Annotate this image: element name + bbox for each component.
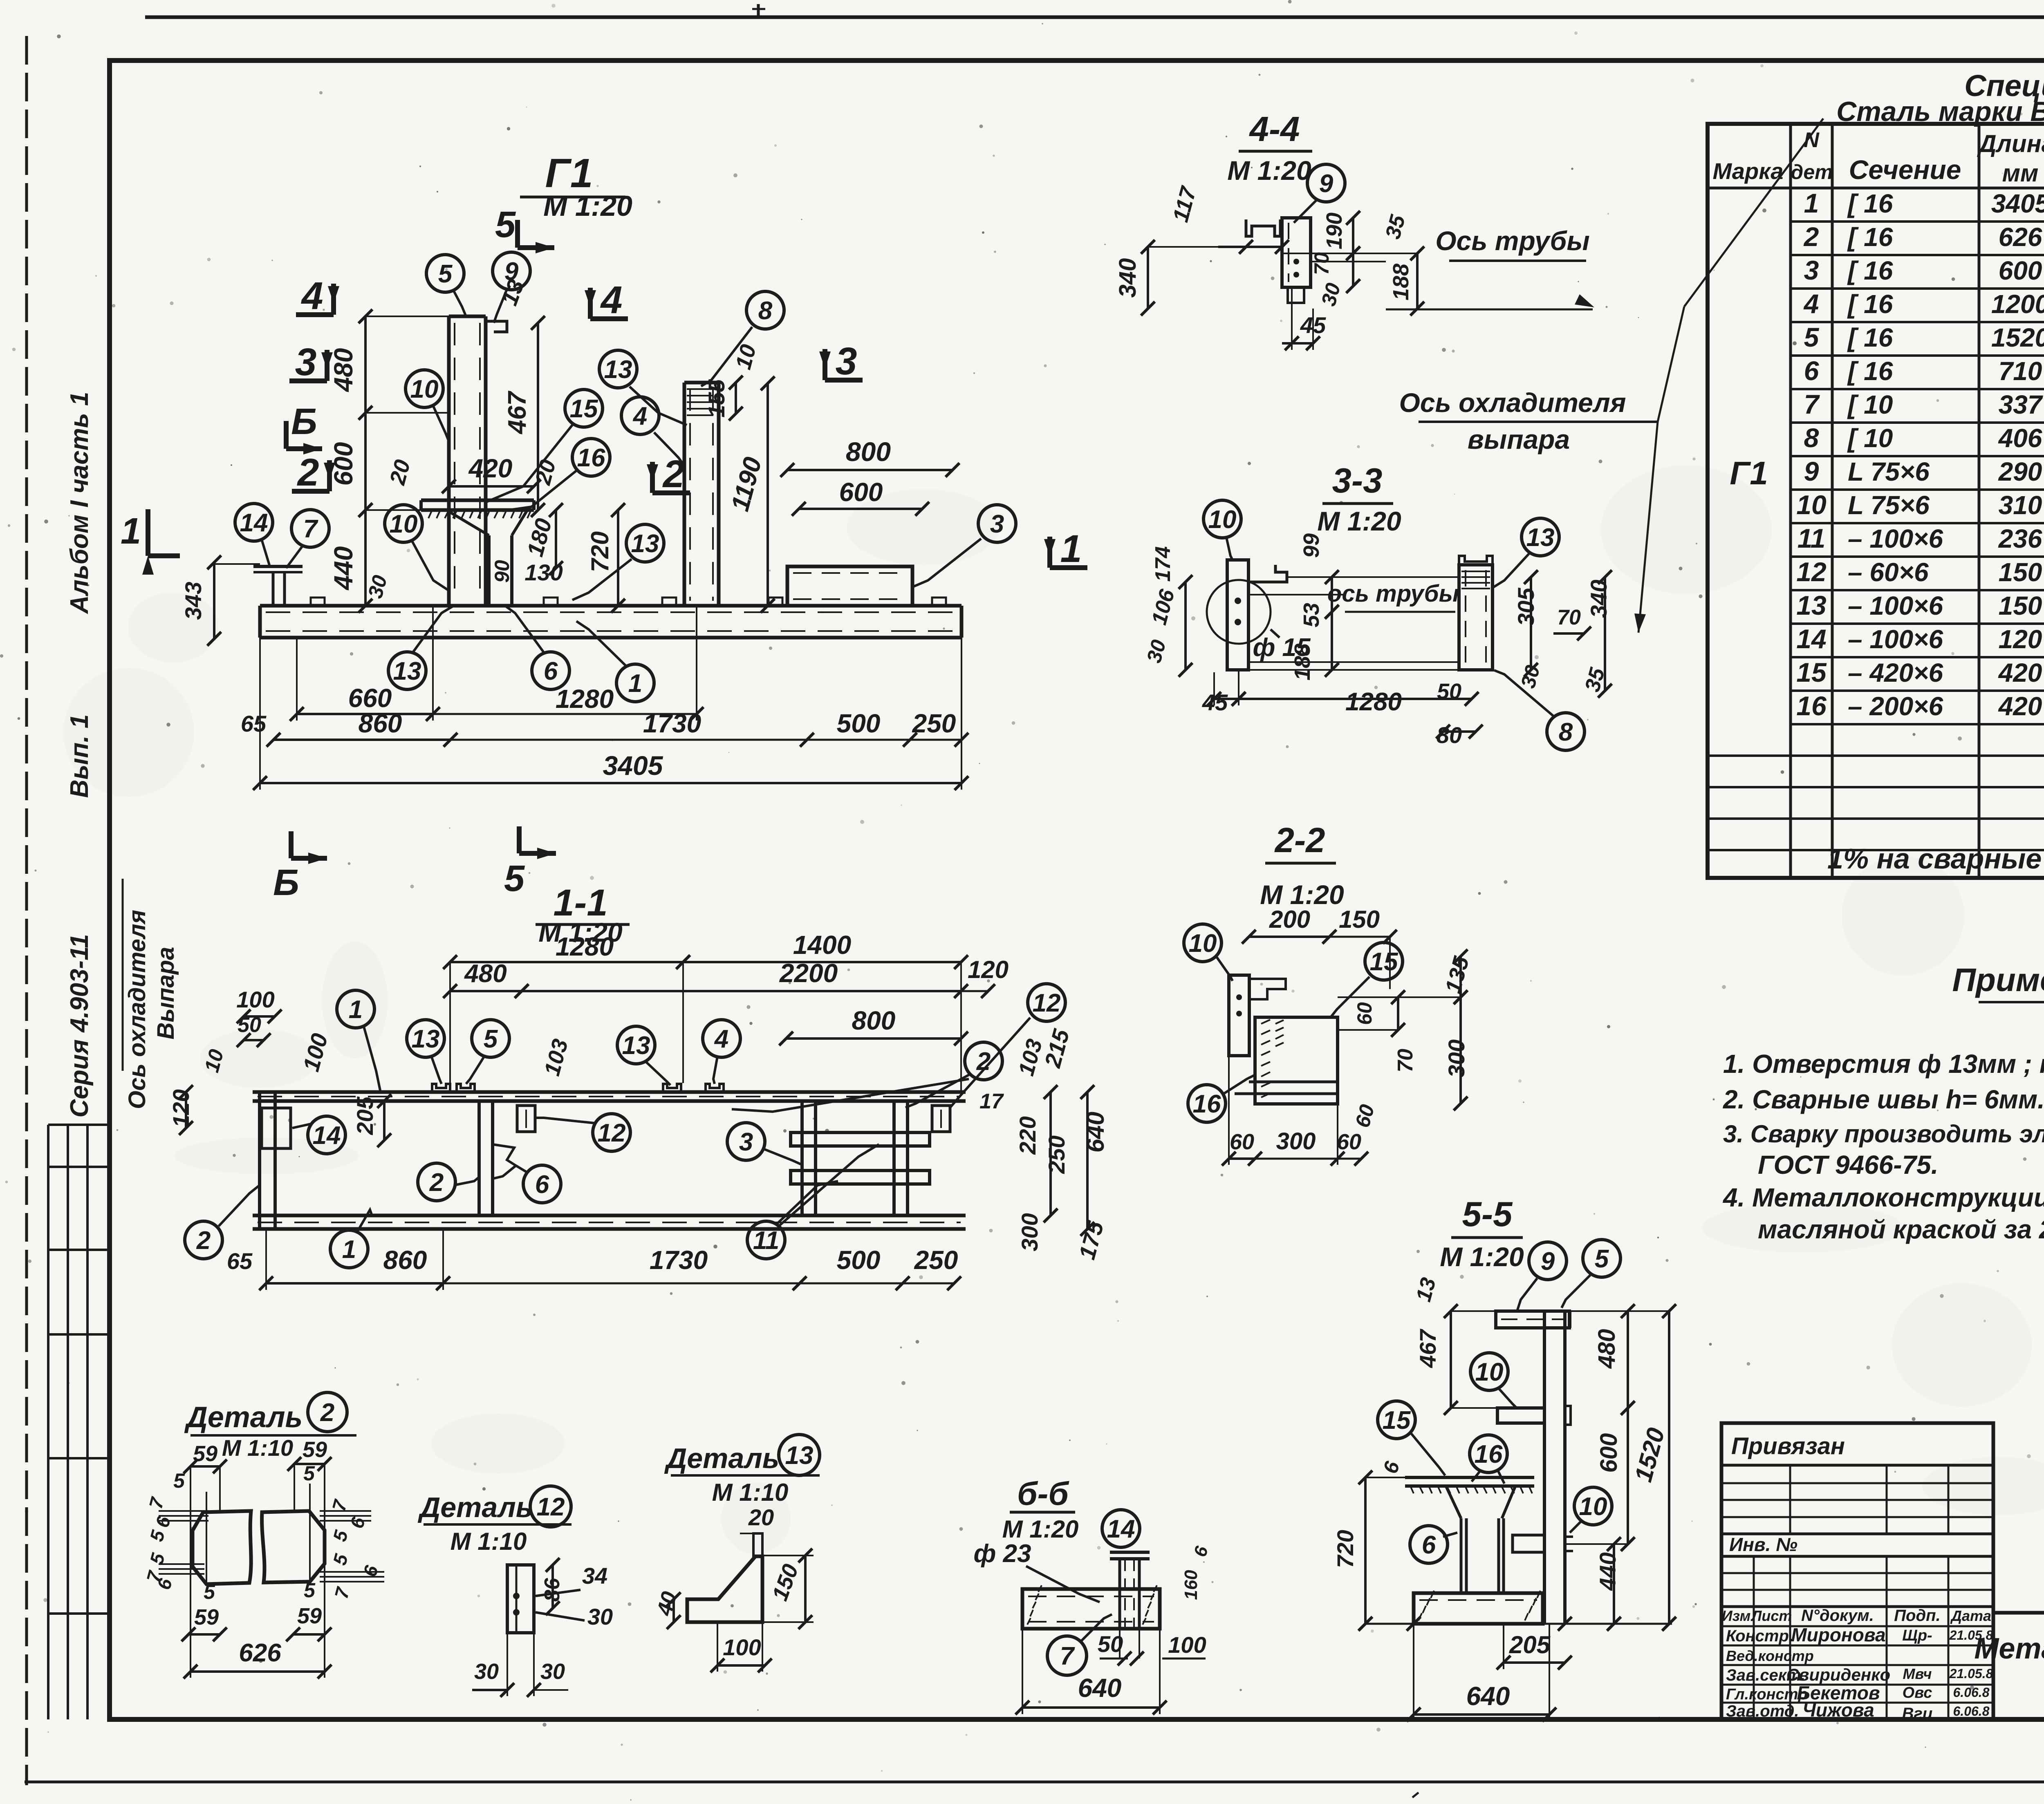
- svg-text:14: 14: [1796, 624, 1826, 654]
- svg-text:7: 7: [303, 515, 318, 543]
- svg-text:12: 12: [1033, 989, 1061, 1017]
- svg-text:9: 9: [1541, 1247, 1555, 1276]
- svg-text:Вып. 1: Вып. 1: [65, 714, 94, 798]
- svg-text:5: 5: [304, 1579, 316, 1602]
- svg-text:М 1:20: М 1:20: [1440, 1242, 1524, 1272]
- svg-text:[ 16: [ 16: [1847, 222, 1893, 252]
- svg-text:М 1:10: М 1:10: [712, 1479, 789, 1506]
- svg-text:59: 59: [194, 1605, 219, 1629]
- svg-text:2-2: 2-2: [1274, 821, 1325, 860]
- svg-text:Альбом I часть 1: Альбом I часть 1: [65, 392, 94, 615]
- svg-text:7: 7: [1804, 389, 1820, 419]
- svg-text:150: 150: [1339, 906, 1380, 933]
- svg-text:15: 15: [1796, 657, 1827, 687]
- svg-text:13: 13: [1526, 524, 1555, 552]
- svg-text:[ 16: [ 16: [1847, 289, 1893, 319]
- svg-text:9: 9: [504, 257, 519, 286]
- svg-text:60: 60: [1353, 1002, 1376, 1025]
- svg-text:7: 7: [1060, 1642, 1075, 1670]
- svg-text:205: 205: [1509, 1631, 1551, 1659]
- svg-text:6: 6: [1804, 356, 1820, 386]
- svg-text:Деталь: Деталь: [184, 1401, 303, 1434]
- svg-text:5: 5: [303, 1462, 315, 1485]
- svg-text:масляной краской за 2 раза.: масляной краской за 2 раза.: [1758, 1215, 2044, 1244]
- svg-text:Констр.: Констр.: [1726, 1627, 1793, 1645]
- svg-text:300: 300: [1276, 1128, 1316, 1155]
- svg-text:5-5: 5-5: [1462, 1195, 1513, 1234]
- svg-text:8: 8: [1804, 423, 1819, 453]
- svg-text:10: 10: [1796, 490, 1827, 520]
- svg-text:дет: дет: [1791, 161, 1833, 184]
- svg-text:3: 3: [295, 340, 317, 384]
- svg-text:155: 155: [704, 379, 729, 417]
- svg-text:130: 130: [524, 560, 563, 585]
- svg-text:1: 1: [121, 511, 141, 552]
- svg-text:L 75×6: L 75×6: [1848, 490, 1930, 520]
- svg-text:20: 20: [748, 1504, 774, 1530]
- svg-text:Изм: Изм: [1722, 1607, 1750, 1624]
- svg-text:50: 50: [1437, 679, 1461, 704]
- svg-text:5: 5: [204, 1580, 215, 1603]
- svg-text:1. Отверстия ф 13мм ; кроме о: 1. Отверстия ф 13мм ; кроме оговоренных.: [1723, 1049, 2044, 1079]
- svg-text:4: 4: [301, 274, 323, 318]
- svg-text:5: 5: [495, 204, 516, 245]
- svg-text:2200: 2200: [779, 958, 838, 988]
- svg-text:21.05.8: 21.05.8: [1949, 1666, 1993, 1681]
- svg-text:Привязан: Привязан: [1731, 1433, 1845, 1459]
- svg-text:800: 800: [852, 1006, 896, 1035]
- svg-text:13: 13: [1796, 590, 1826, 620]
- svg-text:4: 4: [714, 1025, 728, 1053]
- svg-text:3-3: 3-3: [1332, 461, 1383, 500]
- svg-text:70: 70: [1557, 606, 1581, 629]
- svg-text:467: 467: [1415, 1328, 1441, 1368]
- svg-text:13: 13: [622, 1032, 650, 1060]
- svg-text:1730: 1730: [650, 1245, 708, 1275]
- svg-text:10: 10: [1208, 506, 1237, 534]
- svg-text:М 1:20: М 1:20: [1002, 1515, 1079, 1543]
- svg-text:3: 3: [1804, 255, 1819, 285]
- svg-text:60: 60: [1230, 1130, 1254, 1154]
- svg-text:710: 710: [1999, 356, 2042, 386]
- svg-text:800: 800: [846, 436, 891, 467]
- svg-text:13: 13: [631, 530, 659, 558]
- svg-text:9: 9: [1319, 170, 1334, 198]
- svg-text:99: 99: [1299, 533, 1324, 558]
- svg-text:120: 120: [168, 1089, 194, 1127]
- svg-text:600: 600: [839, 477, 883, 507]
- svg-text:2. Сварные швы h= 6мм.: 2. Сварные швы h= 6мм.: [1723, 1085, 2044, 1114]
- svg-text:720: 720: [586, 531, 614, 572]
- svg-text:1% на сварные швы: 1% на сварные швы: [1827, 843, 2044, 875]
- svg-text:14: 14: [1107, 1515, 1135, 1543]
- svg-text:11: 11: [1797, 523, 1826, 553]
- svg-text:30: 30: [474, 1659, 499, 1684]
- svg-text:90: 90: [491, 560, 513, 583]
- svg-text:440: 440: [1595, 1552, 1620, 1591]
- svg-text:Ось охладителя: Ось охладителя: [124, 910, 150, 1109]
- svg-text:М 1:20: М 1:20: [1227, 155, 1311, 186]
- svg-text:188: 188: [1290, 644, 1315, 680]
- svg-text:5: 5: [484, 1025, 498, 1053]
- svg-text:11: 11: [753, 1227, 779, 1255]
- svg-text:[ 16: [ 16: [1847, 189, 1893, 218]
- svg-text:10: 10: [1189, 929, 1217, 958]
- svg-text:600: 600: [1596, 1433, 1622, 1473]
- svg-text:1: 1: [1060, 527, 1082, 571]
- svg-text:1280: 1280: [556, 932, 614, 961]
- svg-text:1520: 1520: [1991, 323, 2044, 352]
- svg-text:Подп.: Подп.: [1894, 1607, 1940, 1625]
- svg-text:2: 2: [429, 1168, 444, 1197]
- svg-text:190: 190: [1322, 213, 1347, 249]
- svg-text:15: 15: [570, 395, 598, 423]
- svg-text:640: 640: [1078, 1673, 1122, 1703]
- svg-text:1: 1: [342, 1235, 356, 1264]
- svg-text:300: 300: [1017, 1213, 1042, 1251]
- svg-text:8: 8: [1559, 718, 1573, 746]
- svg-text:Длина,: Длина,: [1977, 130, 2044, 157]
- svg-text:L 75×6: L 75×6: [1848, 457, 1930, 486]
- svg-text:343: 343: [180, 582, 206, 620]
- svg-text:N°докум.: N°докум.: [1801, 1607, 1874, 1625]
- svg-text:Б: Б: [273, 862, 299, 903]
- svg-text:М 1:10: М 1:10: [222, 1435, 293, 1461]
- svg-text:Зав.отд.: Зав.отд.: [1726, 1702, 1799, 1720]
- svg-text:[ 16: [ 16: [1847, 356, 1893, 386]
- svg-text:Гл.констр: Гл.констр: [1726, 1686, 1808, 1703]
- svg-text:34: 34: [582, 1563, 607, 1589]
- svg-text:[ 16: [ 16: [1847, 323, 1893, 352]
- svg-text:10: 10: [410, 375, 439, 403]
- svg-text:860: 860: [359, 709, 402, 738]
- svg-text:3: 3: [836, 340, 857, 383]
- svg-text:13: 13: [785, 1441, 814, 1470]
- svg-text:500: 500: [837, 709, 881, 738]
- svg-text:53: 53: [1299, 603, 1324, 627]
- svg-text:Миронова: Миронова: [1791, 1624, 1885, 1645]
- svg-text:Щр-: Щр-: [1902, 1627, 1932, 1644]
- svg-text:640: 640: [1466, 1681, 1510, 1711]
- svg-text:10: 10: [1475, 1358, 1504, 1386]
- svg-text:120: 120: [968, 956, 1009, 983]
- svg-text:3: 3: [739, 1128, 753, 1156]
- svg-text:440: 440: [329, 546, 358, 591]
- svg-text:70: 70: [1310, 252, 1333, 275]
- svg-text:– 200×6: – 200×6: [1848, 692, 1943, 721]
- svg-text:М 1:10: М 1:10: [450, 1528, 527, 1555]
- svg-text:1730: 1730: [643, 709, 701, 738]
- svg-text:300: 300: [1443, 1039, 1469, 1077]
- svg-text:Мвч: Мвч: [1903, 1665, 1932, 1682]
- svg-text:150: 150: [1999, 557, 2042, 587]
- svg-text:Деталь: Деталь: [664, 1442, 780, 1474]
- svg-text:2: 2: [320, 1399, 334, 1427]
- svg-text:59: 59: [297, 1604, 322, 1628]
- svg-text:480: 480: [329, 348, 358, 393]
- svg-text:Овс: Овс: [1903, 1684, 1932, 1701]
- svg-text:59: 59: [193, 1441, 217, 1466]
- svg-text:4: 4: [1803, 289, 1819, 319]
- svg-text:50: 50: [1098, 1631, 1123, 1657]
- svg-text:290: 290: [1998, 457, 2042, 486]
- svg-text:16: 16: [1475, 1440, 1503, 1468]
- svg-text:310: 310: [1999, 490, 2042, 520]
- svg-text:Чижова: Чижова: [1802, 1699, 1874, 1721]
- svg-text:Б: Б: [291, 401, 317, 442]
- svg-text:600: 600: [1999, 256, 2042, 285]
- svg-text:250: 250: [914, 1245, 958, 1275]
- svg-text:б-б: б-б: [1017, 1475, 1069, 1512]
- svg-text:15: 15: [1383, 1406, 1411, 1435]
- svg-text:3405: 3405: [603, 750, 663, 781]
- svg-text:188: 188: [1389, 264, 1413, 300]
- svg-text:120: 120: [1999, 624, 2042, 654]
- svg-text:150: 150: [1999, 591, 2042, 620]
- svg-text:420: 420: [1998, 658, 2042, 687]
- svg-text:65: 65: [241, 711, 267, 736]
- svg-text:305: 305: [1513, 587, 1539, 626]
- svg-text:Вги: Вги: [1902, 1705, 1933, 1723]
- svg-text:[ 16: [ 16: [1847, 256, 1893, 285]
- svg-text:12: 12: [537, 1493, 565, 1521]
- svg-text:3. Сварку производить электро: 3. Сварку производить электродами УОНЦЦ-…: [1723, 1120, 2044, 1148]
- svg-text:Г1: Г1: [1730, 455, 1768, 491]
- svg-text:Г1: Г1: [545, 150, 593, 196]
- svg-text:[ 10: [ 10: [1847, 390, 1893, 419]
- svg-text:626: 626: [1999, 222, 2042, 252]
- svg-text:ось трубы: ось трубы: [1327, 580, 1459, 607]
- svg-text:Дата: Дата: [1950, 1607, 1991, 1624]
- svg-text:6.06.8: 6.06.8: [1953, 1685, 1990, 1700]
- svg-text:480: 480: [1594, 1329, 1620, 1369]
- svg-text:Инв. №: Инв. №: [1729, 1534, 1797, 1555]
- svg-text:9: 9: [1804, 456, 1819, 486]
- svg-text:Вед.констр: Вед.констр: [1726, 1647, 1814, 1664]
- svg-text:17: 17: [979, 1090, 1004, 1113]
- svg-text:15: 15: [1370, 948, 1399, 976]
- svg-text:16: 16: [1796, 691, 1827, 721]
- svg-text:М 1:20: М 1:20: [1317, 506, 1401, 536]
- svg-text:Серия 4.903-11: Серия 4.903-11: [65, 934, 94, 1118]
- svg-text:1280: 1280: [1345, 688, 1402, 716]
- svg-text:М 1:20: М 1:20: [543, 190, 632, 222]
- svg-text:5: 5: [173, 1469, 185, 1492]
- svg-text:ГОСТ 9466-75.: ГОСТ 9466-75.: [1758, 1150, 1939, 1180]
- svg-text:406: 406: [1998, 423, 2042, 453]
- svg-text:Выпара: Выпара: [152, 947, 179, 1040]
- svg-text:– 100×6: – 100×6: [1848, 591, 1943, 620]
- svg-text:5: 5: [504, 858, 525, 899]
- svg-text:500: 500: [837, 1245, 881, 1275]
- svg-text:1: 1: [628, 669, 642, 698]
- svg-text:50: 50: [238, 1013, 261, 1037]
- svg-text:мм: мм: [2002, 159, 2039, 187]
- svg-text:– 60×6: – 60×6: [1848, 557, 1929, 587]
- svg-text:12: 12: [1796, 557, 1827, 587]
- svg-text:10: 10: [390, 510, 418, 538]
- svg-text:Лист: Лист: [1750, 1607, 1792, 1624]
- svg-text:4. Металлоконструкции огрунто: 4. Металлоконструкции огрунтовать и окра…: [1722, 1183, 2044, 1212]
- svg-text:30: 30: [587, 1604, 613, 1629]
- svg-text:8: 8: [758, 297, 773, 325]
- svg-text:420: 420: [1998, 692, 2042, 721]
- svg-text:Свириденко: Свириденко: [1786, 1665, 1890, 1684]
- svg-text:1: 1: [349, 996, 363, 1024]
- svg-text:Ось охладителя: Ось охладителя: [1399, 387, 1626, 418]
- svg-text:220: 220: [1015, 1116, 1040, 1155]
- svg-text:5: 5: [1804, 322, 1820, 352]
- svg-text:2: 2: [297, 451, 319, 494]
- svg-text:59: 59: [303, 1437, 327, 1462]
- svg-text:1280: 1280: [556, 684, 614, 714]
- svg-text:1200: 1200: [1991, 289, 2044, 319]
- svg-text:420: 420: [468, 454, 513, 483]
- svg-text:13: 13: [393, 657, 421, 685]
- svg-text:16: 16: [1193, 1090, 1221, 1118]
- svg-text:21.05.8: 21.05.8: [1949, 1628, 1993, 1643]
- svg-text:Марка: Марка: [1713, 158, 1784, 184]
- svg-text:4: 4: [600, 278, 623, 322]
- svg-text:14: 14: [240, 509, 268, 537]
- svg-text:6: 6: [1422, 1531, 1436, 1559]
- svg-text:30: 30: [540, 1659, 565, 1684]
- svg-text:16: 16: [577, 444, 605, 472]
- svg-text:250: 250: [1044, 1135, 1069, 1174]
- svg-text:13: 13: [412, 1025, 440, 1053]
- svg-text:Деталь: Деталь: [418, 1491, 533, 1523]
- svg-text:12: 12: [598, 1119, 626, 1147]
- svg-text:236: 236: [1998, 524, 2042, 553]
- svg-text:100: 100: [236, 987, 274, 1012]
- svg-text:340: 340: [1586, 580, 1611, 618]
- svg-text:100: 100: [723, 1634, 761, 1660]
- svg-text:480: 480: [464, 960, 507, 988]
- svg-text:467: 467: [503, 391, 531, 435]
- svg-text:80: 80: [1437, 722, 1462, 748]
- svg-text:640: 640: [1082, 1112, 1109, 1153]
- svg-text:65: 65: [227, 1248, 253, 1274]
- svg-text:626: 626: [239, 1639, 281, 1667]
- svg-text:860: 860: [383, 1245, 427, 1275]
- svg-text:60: 60: [1337, 1130, 1361, 1154]
- svg-text:2: 2: [662, 452, 685, 496]
- svg-text:100: 100: [1168, 1632, 1206, 1658]
- svg-text:3: 3: [990, 510, 1004, 538]
- svg-text:14: 14: [313, 1121, 341, 1150]
- svg-text:5: 5: [438, 260, 453, 288]
- svg-text:10: 10: [1579, 1493, 1607, 1521]
- svg-text:250: 250: [912, 709, 956, 738]
- svg-text:13: 13: [604, 356, 632, 384]
- svg-text:М 1:20: М 1:20: [1260, 880, 1344, 910]
- svg-text:выпара: выпара: [1468, 424, 1570, 454]
- svg-text:– 100×6: – 100×6: [1848, 524, 1943, 553]
- svg-text:Сечение: Сечение: [1849, 154, 1961, 185]
- svg-text:– 100×6: – 100×6: [1848, 624, 1943, 654]
- svg-text:3405: 3405: [1991, 189, 2044, 218]
- svg-text:2: 2: [196, 1227, 211, 1255]
- svg-text:70: 70: [1394, 1049, 1417, 1072]
- svg-text:Примечания:: Примечания:: [1952, 962, 2044, 998]
- svg-text:6: 6: [535, 1171, 549, 1199]
- svg-text:174: 174: [1151, 546, 1175, 582]
- svg-text:– 420×6: – 420×6: [1848, 658, 1943, 687]
- svg-text:Ось трубы: Ось трубы: [1435, 226, 1590, 256]
- svg-text:720: 720: [1332, 1530, 1358, 1568]
- svg-text:337: 337: [1999, 390, 2044, 419]
- svg-text:1400: 1400: [793, 930, 851, 960]
- svg-text:[ 10: [ 10: [1847, 423, 1893, 453]
- svg-text:200: 200: [1269, 906, 1310, 933]
- svg-text:5: 5: [1595, 1245, 1609, 1273]
- svg-text:205: 205: [352, 1096, 378, 1135]
- svg-text:6: 6: [544, 657, 558, 685]
- svg-text:4-4: 4-4: [1249, 110, 1300, 149]
- svg-text:ф 23: ф 23: [973, 1540, 1031, 1568]
- svg-text:4: 4: [632, 402, 647, 430]
- svg-text:160: 160: [1181, 1570, 1201, 1600]
- svg-text:340: 340: [1114, 258, 1141, 298]
- svg-text:1: 1: [1804, 188, 1819, 218]
- svg-text:2: 2: [1803, 222, 1819, 252]
- svg-text:6.06.8: 6.06.8: [1953, 1704, 1990, 1719]
